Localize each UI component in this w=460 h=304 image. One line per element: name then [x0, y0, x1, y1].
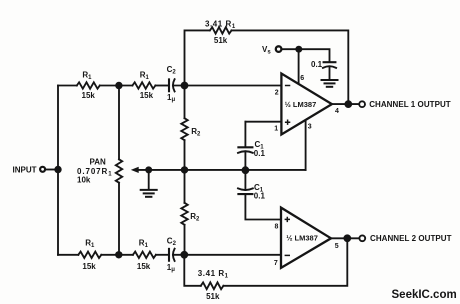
svg-text:INPUT: INPUT [13, 165, 37, 174]
svg-text:R1: R1 [82, 70, 92, 81]
svg-text:R1: R1 [85, 239, 95, 250]
svg-text:R2: R2 [191, 127, 201, 138]
svg-text:51k: 51k [214, 36, 228, 45]
svg-text:0.1: 0.1 [254, 149, 266, 158]
svg-text:10k: 10k [77, 176, 91, 185]
svg-text:C2: C2 [167, 237, 177, 248]
svg-text:0.1: 0.1 [311, 60, 323, 69]
svg-text:1μ: 1μ [167, 263, 175, 273]
svg-text:0.1: 0.1 [254, 192, 266, 201]
svg-text:3.41 R1: 3.41 R1 [205, 19, 236, 30]
svg-text:1: 1 [274, 126, 278, 133]
svg-text:15k: 15k [140, 91, 154, 100]
svg-text:3: 3 [308, 124, 312, 131]
svg-text:6: 6 [300, 75, 304, 82]
svg-text:½ LM387: ½ LM387 [285, 100, 317, 109]
svg-text:2: 2 [275, 89, 279, 96]
svg-text:½ LM387: ½ LM387 [286, 234, 318, 243]
svg-text:C2: C2 [167, 65, 177, 76]
svg-text:8: 8 [275, 224, 279, 231]
svg-text:15k: 15k [137, 262, 151, 271]
svg-text:CHANNEL 2 OUTPUT: CHANNEL 2 OUTPUT [370, 234, 452, 243]
svg-text:15k: 15k [82, 262, 96, 271]
svg-text:R1: R1 [140, 70, 150, 81]
svg-text:PAN: PAN [90, 158, 107, 167]
svg-text:1μ: 1μ [167, 93, 175, 103]
svg-text:Vs: Vs [262, 45, 271, 56]
svg-text:3.41 R1: 3.41 R1 [198, 269, 229, 280]
svg-text:CHANNEL 1 OUTPUT: CHANNEL 1 OUTPUT [369, 100, 451, 109]
svg-text:SeekIC.com: SeekIC.com [392, 289, 457, 301]
svg-text:4: 4 [335, 108, 339, 115]
svg-text:15k: 15k [82, 91, 96, 100]
svg-text:R1: R1 [139, 239, 149, 250]
svg-text:51k: 51k [206, 292, 220, 301]
svg-text:R2: R2 [190, 212, 200, 223]
svg-text:7: 7 [274, 260, 278, 267]
svg-text:5: 5 [335, 243, 339, 250]
